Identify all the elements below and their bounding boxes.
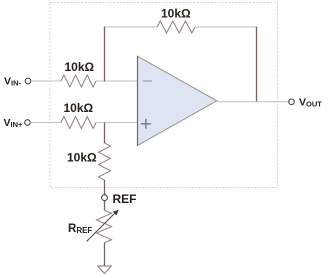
svg-text:10kΩ: 10kΩ — [161, 7, 191, 21]
wire feedback right vertical (junction at output) — [256, 27, 258, 103]
op-amp plus symbol — [141, 123, 151, 125]
wire R3 to op-amp non-inverting input — [96, 122, 138, 124]
node VIN- terminal — [25, 78, 31, 84]
wire R1 to op-amp inverting input — [96, 80, 138, 82]
svg-text:RREF: RREF — [68, 223, 92, 235]
op-amp U1 — [138, 56, 217, 145]
svg-text:VOUT: VOUT — [299, 97, 322, 109]
svg-text:REF: REF — [113, 192, 137, 206]
svg-text:VIN+: VIN+ — [4, 117, 24, 129]
IC boundary (dashed box) — [50, 3, 278, 188]
svg-text:10kΩ: 10kΩ — [64, 101, 94, 115]
wire RREF to ground — [104, 243, 106, 266]
node VOUT terminal — [289, 99, 295, 105]
wire non-inverting node down to R4 — [104, 123, 106, 144]
resistor R1 10k (inverting input) — [61, 75, 96, 87]
wire REF node to RREF — [104, 201, 106, 210]
wire feedback top run — [105, 26, 158, 28]
wire VIN+ to R3 — [30, 122, 61, 124]
resistor R4 10k (to REF) — [99, 143, 111, 180]
svg-text:VIN-: VIN- — [4, 76, 22, 88]
potentiometer arrow — [87, 214, 115, 242]
node REF — [102, 195, 108, 201]
resistor R2 10k (feedback) — [157, 21, 195, 33]
resistor R3 10k (non-inverting input) — [61, 117, 96, 129]
wire feedback left vertical (junction at inverting node) — [104, 27, 106, 82]
potentiometer RREF — [97, 210, 112, 243]
op-amp minus symbol — [143, 80, 153, 82]
ground — [98, 266, 111, 274]
svg-text:10kΩ: 10kΩ — [67, 151, 97, 165]
node VIN+ terminal — [25, 120, 31, 126]
svg-text:10kΩ: 10kΩ — [65, 60, 95, 74]
wire op-amp output to VOUT — [217, 101, 289, 103]
wire R4 to REF node — [104, 180, 106, 195]
wire VIN- to R1 — [31, 80, 61, 82]
